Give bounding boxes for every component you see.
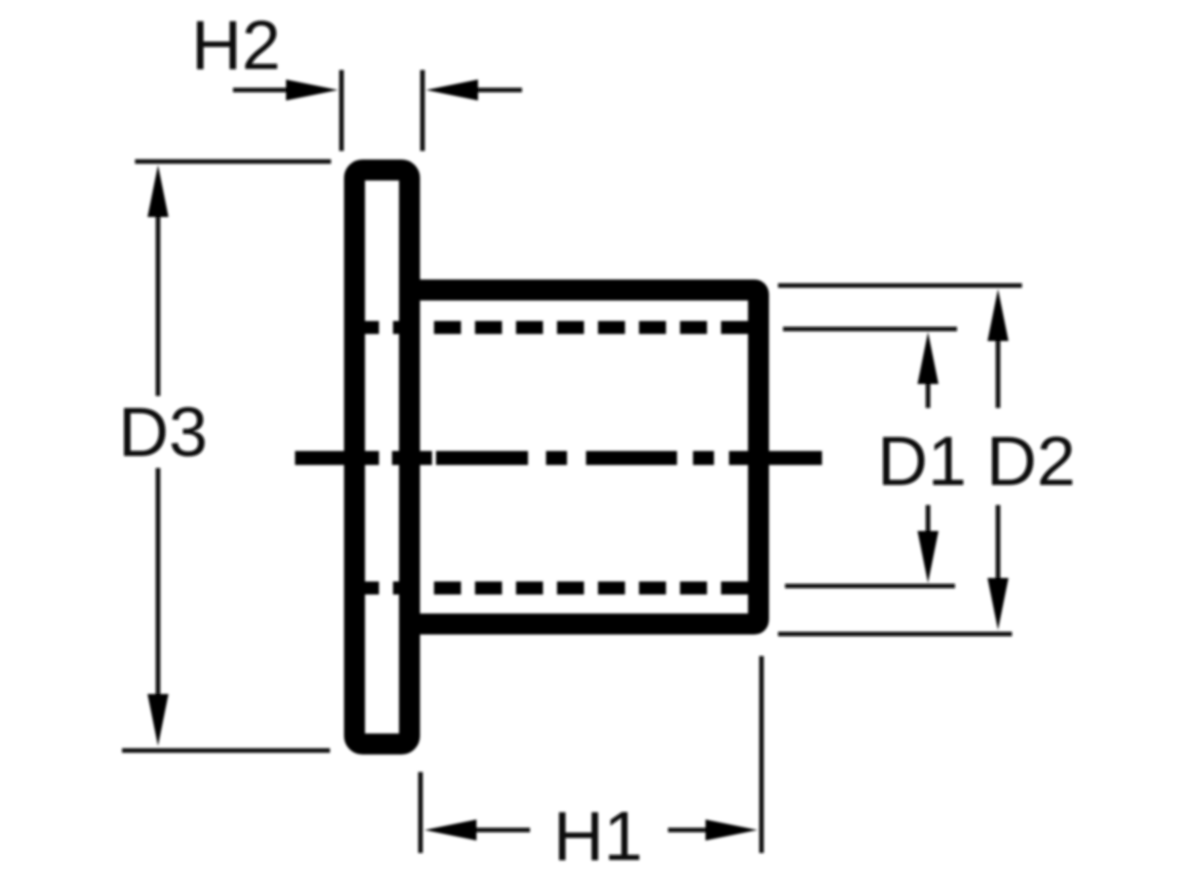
D2 arrowhead down — [988, 578, 1009, 630]
D2 extension line bottom — [778, 632, 1012, 637]
center line segment 2 — [436, 451, 528, 465]
D3 arrowhead up — [148, 165, 169, 217]
H1 arrowhead pointing left — [425, 820, 477, 841]
center line short dash 1 — [546, 451, 567, 465]
D2 arrowhead up — [988, 289, 1009, 341]
svg-text:H1: H1 — [553, 797, 642, 875]
H1 arrow shaft right — [668, 828, 712, 833]
H2 extension line left — [339, 70, 344, 151]
center line segment 1 — [295, 451, 379, 465]
bore hidden line top — [352, 321, 750, 334]
H1 extension line left — [418, 772, 423, 853]
flange outline — [355, 170, 410, 744]
svg-text:D1: D1 — [877, 422, 966, 500]
svg-text:D3: D3 — [118, 393, 207, 471]
H2 arrowhead pointing left — [426, 80, 478, 101]
center line — [295, 451, 822, 465]
H2 arrowhead pointing right — [286, 80, 338, 101]
D2 extension line top — [778, 283, 1022, 288]
D3 extension line top — [135, 159, 331, 164]
D3 arrowhead down — [148, 694, 169, 746]
center line segment 3 — [586, 451, 677, 465]
H1 arrow shaft left — [471, 828, 530, 833]
D2 dimension line upper — [996, 336, 1001, 408]
center line short dash 2 — [693, 451, 714, 465]
svg-text:D2: D2 — [986, 422, 1075, 500]
center line segment 4 — [729, 451, 822, 465]
H2 arrow shaft right — [474, 88, 522, 93]
D1 dimension line lower — [926, 505, 931, 537]
H1 arrowhead pointing right — [706, 820, 758, 841]
D3 dimension line upper — [156, 210, 161, 396]
D2 dimension line lower — [996, 505, 1001, 582]
H1 extension line right — [759, 656, 764, 853]
bore hidden line bottom — [352, 582, 750, 595]
body outline — [416, 290, 759, 624]
D1 extension line top — [783, 327, 957, 332]
svg-text:H2: H2 — [191, 6, 280, 84]
center line tick over flange right wall — [392, 451, 432, 465]
H2 arrow shaft left — [233, 88, 292, 93]
D1 dimension line upper — [926, 378, 931, 408]
D3 dimension line lower — [156, 468, 161, 701]
D1 arrowhead up — [918, 332, 939, 384]
H2 extension line right — [420, 70, 425, 151]
D3 extension line bottom — [122, 748, 330, 753]
D1 extension line bottom — [785, 584, 955, 589]
D1 arrowhead down — [918, 531, 939, 583]
